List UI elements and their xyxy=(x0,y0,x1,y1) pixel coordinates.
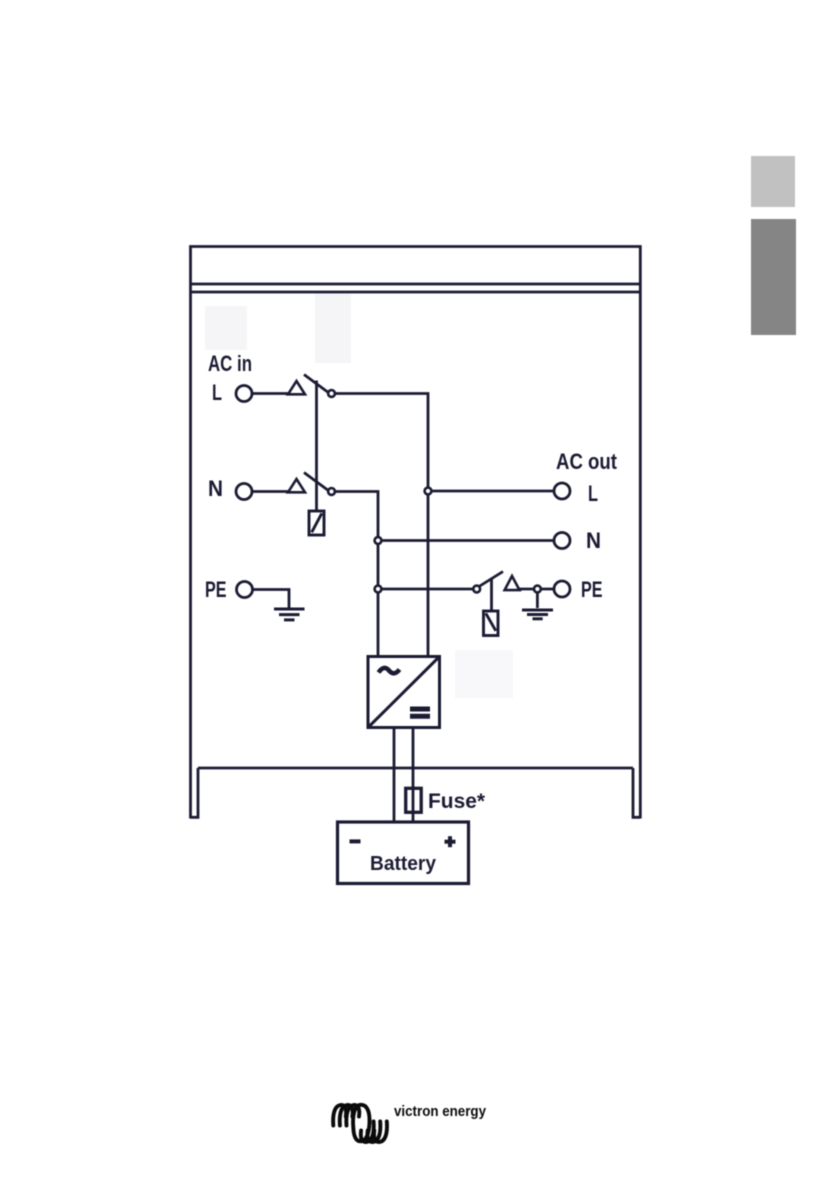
svg-text:N: N xyxy=(586,528,601,553)
svg-text:PE: PE xyxy=(205,577,227,602)
svg-text:PE: PE xyxy=(581,577,603,602)
svg-text:AC out: AC out xyxy=(556,449,618,474)
svg-text:L: L xyxy=(212,380,222,405)
svg-text:N: N xyxy=(208,476,223,501)
svg-text:victron energy: victron energy xyxy=(394,1104,486,1120)
svg-text:Fuse*: Fuse* xyxy=(428,789,486,813)
svg-text:AC in: AC in xyxy=(208,351,252,376)
svg-text:Battery: Battery xyxy=(370,852,437,875)
svg-text:L: L xyxy=(588,481,598,506)
